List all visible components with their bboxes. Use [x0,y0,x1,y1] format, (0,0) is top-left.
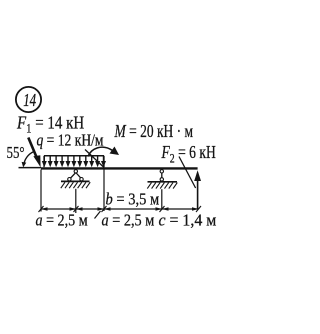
svg-text:14: 14 [23,91,36,111]
svg-text:b = 3,5 м: b = 3,5 м [106,191,160,209]
svg-text:55°: 55° [7,144,25,162]
svg-text:a = 2,5 м: a = 2,5 м [36,211,88,229]
svg-text:F2 = 6 кН: F2 = 6 кН [161,143,217,166]
svg-text:c = 1,4 м: c = 1,4 м [159,210,217,230]
svg-text:a = 2,5 м: a = 2,5 м [102,211,155,229]
svg-text:M = 20 кН · м: M = 20 кН · м [114,122,193,141]
svg-text:q = 12 кН/м: q = 12 кН/м [37,131,104,150]
